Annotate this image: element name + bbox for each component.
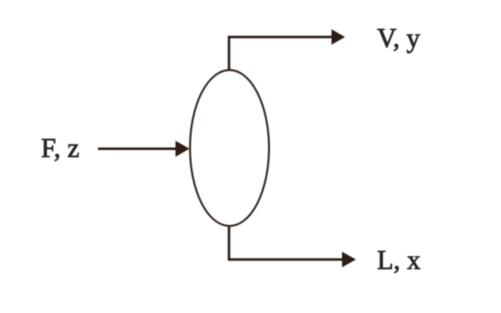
flash drum vessel (ellipse) — [190, 70, 269, 226]
svg-text:V, y: V, y — [377, 23, 421, 53]
wire: liquid outlet horizontal run — [228, 258, 343, 261]
svg-text:L, x: L, x — [377, 245, 421, 275]
wire: feed line — [98, 147, 176, 150]
arrowhead: feed into vessel — [176, 141, 190, 157]
wire: liquid outlet vertical stem — [228, 226, 231, 260]
arrowhead: vapor outlet — [332, 29, 346, 44]
wire: vapor outlet vertical stem — [228, 37, 231, 70]
svg-text:F, z: F, z — [41, 133, 79, 163]
arrowhead: liquid outlet — [342, 252, 356, 268]
wire: vapor outlet horizontal run — [228, 36, 332, 39]
